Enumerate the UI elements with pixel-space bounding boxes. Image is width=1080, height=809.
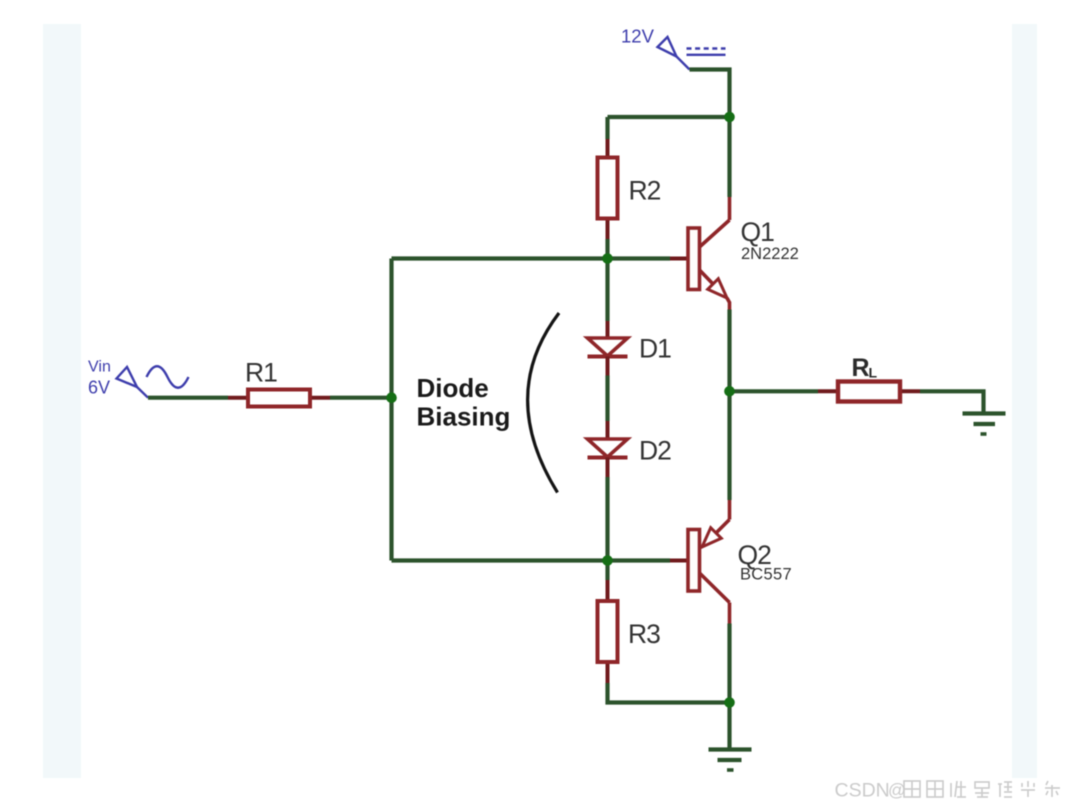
transistor Q2 bbox=[670, 500, 730, 624]
resistor R1 bbox=[228, 390, 330, 407]
wire 12V supply to top rail bbox=[690, 70, 730, 118]
svg-text:Biasing: Biasing bbox=[417, 402, 511, 432]
svg-text:2N2222: 2N2222 bbox=[741, 245, 799, 263]
annotation Diode Biasing bbox=[417, 373, 511, 432]
wire Q1 base row bbox=[392, 256, 671, 260]
svg-text:L: L bbox=[869, 365, 878, 381]
wire Q2 base row bbox=[392, 558, 671, 562]
supply symbol 12V bbox=[658, 37, 726, 70]
wire D column top bbox=[605, 259, 609, 322]
wire top rail down to Q1 collector bbox=[727, 117, 731, 197]
svg-text:Diode: Diode bbox=[417, 373, 489, 403]
svg-text:Q1: Q1 bbox=[741, 217, 775, 247]
junction left rail input bbox=[386, 392, 397, 403]
svg-text:@: @ bbox=[888, 780, 906, 800]
junction output node bbox=[724, 386, 735, 397]
svg-text:R: R bbox=[852, 354, 870, 382]
wire D2 to Q2 base node bbox=[605, 477, 609, 561]
transistor Q1 bbox=[670, 197, 730, 310]
wire R3 top bbox=[605, 561, 609, 581]
wire Q2 collector down bbox=[727, 624, 731, 703]
svg-text:D1: D1 bbox=[639, 334, 671, 364]
wire Vin to R1 bbox=[148, 396, 228, 400]
svg-text:Vin: Vin bbox=[88, 359, 111, 376]
wire R2 top bbox=[605, 117, 609, 139]
wire between D1 and D2 bbox=[605, 376, 609, 422]
diode D1 bbox=[588, 321, 628, 376]
resistor R2 bbox=[598, 139, 618, 239]
wire R3 bottom to ground rail bbox=[608, 683, 730, 703]
junction bottom node bbox=[724, 697, 735, 708]
wire R2 bottom to base node bbox=[605, 239, 609, 259]
source Vin bbox=[117, 366, 189, 397]
svg-text:CSDN: CSDN bbox=[835, 780, 890, 802]
ground right bbox=[963, 414, 1006, 435]
wire Q1 emitter to output node bbox=[727, 310, 731, 392]
diode D2 bbox=[588, 421, 628, 477]
annotation brace arc bbox=[528, 313, 559, 493]
wire output row bbox=[730, 389, 819, 393]
wire RL to ground bbox=[920, 391, 984, 412]
resistor R3 bbox=[598, 580, 618, 683]
svg-text:6V: 6V bbox=[88, 378, 110, 398]
svg-text:R3: R3 bbox=[628, 619, 660, 649]
junction Q1 base node bbox=[602, 253, 613, 264]
svg-text:R2: R2 bbox=[629, 176, 661, 206]
ground bottom bbox=[709, 750, 752, 771]
svg-text:D2: D2 bbox=[639, 436, 671, 466]
junction top rail bbox=[724, 112, 735, 123]
wire bottom node to ground bbox=[727, 703, 731, 749]
wire top rail horizontal bbox=[608, 115, 730, 119]
wire R1 to left rail bbox=[330, 396, 392, 400]
svg-text:R1: R1 bbox=[245, 358, 277, 388]
wire left rail bbox=[389, 259, 393, 561]
resistor RL bbox=[818, 382, 920, 402]
svg-text:12V: 12V bbox=[621, 26, 655, 47]
wire output node down to Q2 emitter bbox=[727, 391, 731, 500]
junction Q2 base node bbox=[602, 555, 613, 566]
svg-text:BC557: BC557 bbox=[740, 566, 792, 584]
